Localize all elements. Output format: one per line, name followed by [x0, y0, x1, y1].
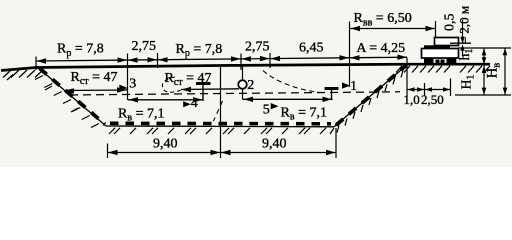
bottom reference line y95 [455, 94, 511, 96]
machine (compactor) cab [435, 38, 459, 46]
dashed leader curve right [263, 71, 320, 93]
svg-text:Rв = 7,1: Rв = 7,1 [281, 106, 327, 123]
center line of pit [220, 66, 222, 158]
machine left wheel [424, 58, 434, 65]
point 2 circle [242, 66, 244, 100]
extension tick x270 [269, 53, 271, 68]
svg-text:2,50: 2,50 [421, 92, 444, 107]
extension tick x241 [240, 54, 242, 71]
left slope thick dashes [40, 68, 106, 124]
right slope thick dashes [336, 65, 407, 125]
0,5 dim vertical with arrows [462, 20, 464, 37]
extension tick x157.5 [157, 53, 159, 68]
surveying rod T2 [325, 87, 339, 90]
corner hatch below right corner [330, 128, 334, 134]
svg-text:0,5: 0,5 [443, 13, 458, 31]
point 4 marker [183, 101, 191, 107]
center Rst dimension line [181, 88, 239, 91]
svg-text:Rв = 7,1: Rв = 7,1 [118, 107, 164, 124]
svg-text:6,45: 6,45 [299, 41, 324, 56]
machine dark bar [424, 45, 450, 48]
left slope hatching [35, 76, 99, 128]
point 1 marker [342, 82, 350, 88]
ground hatching right [396, 66, 490, 73]
pit bottom line [106, 125, 334, 128]
svg-text:2,75: 2,75 [132, 39, 157, 54]
svg-text:A = 4,25: A = 4,25 [356, 41, 405, 56]
small dashed diagonal near center bottom [214, 101, 223, 121]
right slope line [334, 65, 408, 127]
svg-text:9,40: 9,40 [262, 136, 287, 151]
bottom right extension tick [335, 128, 337, 158]
right slope hatching [337, 71, 403, 133]
top dimension line [36, 57, 407, 61]
svg-text:Rст = 47: Rст = 47 [165, 71, 212, 88]
svg-text:1,0: 1,0 [404, 92, 420, 107]
Rvv right tick [435, 21, 437, 37]
1,0 / 2,50 dimension [407, 89, 451, 91]
svg-text:2: 2 [247, 78, 254, 93]
ground hatching left [3, 70, 43, 80]
ground surface line [1, 64, 490, 70]
svg-text:Rp = 7,8: Rp = 7,8 [57, 42, 104, 59]
0,5 dim tick [450, 42, 471, 44]
machine body [422, 49, 459, 59]
machine right wheel [447, 58, 457, 65]
right Rv dimension line [243, 98, 333, 100]
extension line x407 going down to 1,0 dim [406, 58, 408, 97]
left Rv dimension line [128, 99, 203, 101]
left slope line [39, 68, 107, 126]
h1 / H1 dimension vertical x484 [483, 48, 485, 95]
svg-text:Rp = 7,8: Rp = 7,8 [176, 42, 223, 59]
surveying rod T1 [196, 82, 211, 85]
extension line x349.5 (A / Rvv / 6,45 boundary) [349, 22, 351, 88]
svg-text:9,40: 9,40 [153, 136, 178, 151]
top reference line y48 [458, 47, 511, 49]
Rvv dimension line [350, 28, 436, 30]
dashed leader curve for center Rst [162, 77, 180, 92]
svg-text:= 2,0 м: = 2,0 м [457, 6, 472, 44]
svg-text:2,75: 2,75 [245, 39, 270, 54]
point 3 marker [119, 85, 128, 92]
svg-text:1: 1 [350, 78, 357, 93]
pit bottom hatching [109, 128, 326, 134]
Hv dimension vertical x505 [504, 48, 506, 95]
extension tick x127.5 (point 3 line goes down to Rv dim) [127, 54, 129, 101]
svg-text:Rвв = 6,50: Rвв = 6,50 [354, 11, 412, 28]
bottom dimension line [108, 152, 337, 154]
svg-text:4: 4 [191, 96, 198, 111]
pit bottom thick dashes [110, 122, 331, 126]
svg-text:Rст = 47: Rст = 47 [71, 70, 118, 87]
svg-text:3: 3 [129, 76, 136, 91]
extension tick left end [35, 57, 37, 71]
right end arrow at slope top x407 [398, 55, 408, 60]
machine small blocks [436, 60, 440, 64]
svg-text:5: 5 [263, 103, 270, 118]
left Rst dimension line [64, 89, 127, 92]
main dashed level line [70, 92, 400, 95]
